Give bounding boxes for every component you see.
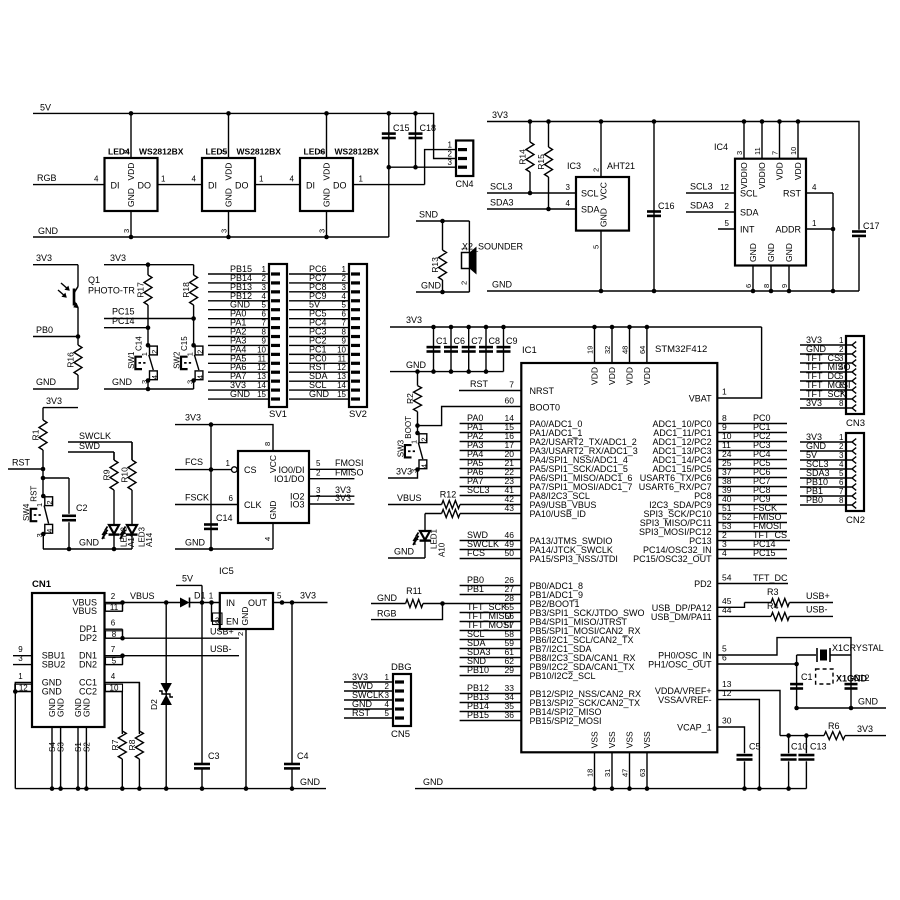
svg-text:12: 12: [720, 183, 729, 192]
svg-text:PB2/BOOT1: PB2/BOOT1: [530, 599, 580, 609]
svg-text:1: 1: [140, 352, 149, 356]
svg-text:PB0: PB0: [36, 325, 53, 335]
svg-text:3V3: 3V3: [300, 591, 316, 601]
svg-text:3V3: 3V3: [857, 724, 873, 734]
svg-text:DBG: DBG: [391, 662, 412, 673]
svg-text:IO3: IO3: [290, 500, 305, 510]
svg-text:C7: C7: [471, 336, 483, 346]
svg-text:GND: GND: [42, 687, 63, 697]
svg-text:4: 4: [385, 700, 390, 709]
svg-text:RST: RST: [470, 379, 489, 389]
svg-text:6: 6: [111, 619, 116, 628]
svg-text:CN4: CN4: [456, 179, 474, 189]
svg-text:R11: R11: [406, 586, 422, 596]
svg-text:C13: C13: [810, 742, 827, 752]
svg-text:C3: C3: [208, 751, 220, 761]
svg-text:PC15: PC15: [112, 307, 135, 317]
svg-text:2: 2: [592, 168, 601, 172]
svg-text:WS2812BX: WS2812BX: [139, 147, 184, 157]
svg-text:12: 12: [337, 363, 346, 372]
svg-text:SCL: SCL: [581, 189, 599, 199]
svg-text:R15: R15: [536, 154, 546, 170]
svg-text:4: 4: [419, 464, 428, 468]
svg-text:1: 1: [185, 352, 194, 356]
svg-text:VDD: VDD: [793, 162, 803, 180]
svg-text:C10: C10: [791, 742, 808, 752]
svg-text:6: 6: [722, 653, 727, 663]
svg-text:3V3: 3V3: [492, 110, 508, 120]
svg-text:1: 1: [259, 175, 264, 184]
svg-text:64: 64: [638, 346, 647, 354]
svg-text:11: 11: [258, 354, 267, 363]
svg-text:VSSA/VREF-: VSSA/VREF-: [658, 695, 712, 705]
svg-text:DO: DO: [138, 181, 152, 191]
svg-text:1: 1: [262, 265, 267, 274]
svg-text:4: 4: [45, 529, 54, 533]
svg-text:SV2: SV2: [349, 409, 367, 420]
svg-text:5V: 5V: [182, 574, 193, 584]
svg-text:PC14: PC14: [112, 316, 135, 326]
svg-text:6: 6: [342, 310, 347, 319]
svg-text:PA15/SPI3_NSS/JTDI: PA15/SPI3_NSS/JTDI: [530, 554, 618, 564]
svg-text:VDDIO: VDDIO: [739, 162, 749, 189]
svg-text:1: 1: [226, 459, 231, 468]
svg-text:S3: S3: [57, 742, 66, 752]
svg-text:R1: R1: [31, 429, 41, 440]
svg-text:1: 1: [459, 247, 468, 251]
svg-text:8: 8: [839, 399, 844, 408]
svg-text:C1: C1: [436, 336, 448, 346]
svg-text:CN1: CN1: [32, 579, 52, 590]
svg-text:VSS: VSS: [607, 731, 617, 748]
svg-text:VDD: VDD: [126, 163, 136, 181]
svg-text:7: 7: [262, 319, 267, 328]
svg-text:2: 2: [45, 500, 54, 504]
svg-text:IC4: IC4: [714, 142, 728, 152]
svg-text:GND: GND: [599, 208, 609, 227]
svg-text:6: 6: [744, 284, 753, 288]
svg-text:4: 4: [290, 175, 295, 184]
svg-text:3V3: 3V3: [396, 467, 412, 477]
svg-text:3V3: 3V3: [335, 493, 351, 503]
svg-text:SW3: SW3: [396, 439, 405, 457]
svg-text:INT: INT: [740, 225, 755, 235]
svg-text:VBAT: VBAT: [689, 394, 712, 404]
svg-text:4: 4: [812, 183, 817, 192]
svg-text:CLK: CLK: [244, 500, 262, 510]
svg-text:14: 14: [337, 381, 346, 390]
svg-text:7: 7: [839, 487, 844, 496]
svg-text:1: 1: [35, 503, 44, 507]
svg-text:4: 4: [262, 292, 267, 301]
svg-text:43: 43: [505, 503, 515, 513]
svg-text:GND: GND: [240, 607, 250, 626]
svg-text:2: 2: [459, 281, 468, 285]
svg-text:GND: GND: [126, 188, 136, 207]
svg-text:GND: GND: [79, 538, 100, 548]
svg-text:R13: R13: [430, 257, 440, 273]
svg-text:2: 2: [236, 632, 245, 636]
svg-text:5: 5: [342, 301, 347, 310]
svg-text:RST: RST: [783, 189, 802, 199]
svg-text:X2_SOUNDER: X2_SOUNDER: [462, 242, 524, 252]
svg-text:IC5: IC5: [219, 566, 234, 577]
svg-text:3: 3: [385, 691, 390, 700]
svg-text:SW4: SW4: [22, 503, 31, 521]
svg-text:GND: GND: [309, 389, 330, 399]
svg-text:VDDIO: VDDIO: [757, 162, 767, 189]
svg-text:13: 13: [337, 372, 346, 381]
svg-text:S2: S2: [82, 742, 91, 752]
svg-text:18: 18: [586, 769, 595, 777]
svg-text:CN5: CN5: [391, 729, 410, 740]
svg-text:VDD: VDD: [625, 367, 635, 385]
svg-text:ADDR: ADDR: [775, 225, 801, 235]
svg-text:2: 2: [839, 442, 844, 451]
svg-text:CN2: CN2: [846, 515, 865, 526]
svg-text:3V3: 3V3: [46, 396, 62, 406]
svg-text:PA10/USB_ID: PA10/USB_ID: [530, 509, 587, 519]
svg-text:5: 5: [385, 709, 390, 718]
svg-text:GND: GND: [81, 698, 91, 717]
svg-text:SWCLK: SWCLK: [79, 431, 111, 441]
svg-text:GND: GND: [300, 777, 321, 787]
svg-text:PB10: PB10: [467, 665, 489, 675]
svg-text:8: 8: [762, 284, 771, 288]
svg-text:1: 1: [18, 672, 23, 681]
svg-text:SWD: SWD: [79, 441, 100, 451]
svg-text:7: 7: [316, 494, 321, 503]
svg-text:19: 19: [586, 346, 595, 354]
svg-text:IO1/DO: IO1/DO: [274, 474, 305, 484]
svg-text:RST: RST: [12, 458, 31, 468]
svg-text:1: 1: [359, 175, 364, 184]
svg-text:SND: SND: [419, 210, 439, 220]
svg-text:WS2812BX: WS2812BX: [237, 147, 282, 157]
svg-text:VBUS: VBUS: [130, 591, 155, 601]
svg-text:FSCK: FSCK: [185, 493, 209, 503]
svg-text:PB0: PB0: [806, 495, 823, 505]
svg-text:31: 31: [603, 769, 612, 777]
svg-text:8: 8: [342, 328, 347, 337]
svg-text:2: 2: [196, 350, 205, 354]
svg-text:NRST: NRST: [530, 386, 555, 396]
svg-text:C8: C8: [489, 336, 501, 346]
svg-text:12: 12: [722, 688, 732, 698]
svg-text:GND: GND: [406, 360, 427, 370]
svg-text:SDA: SDA: [740, 208, 759, 218]
svg-text:GND: GND: [112, 377, 133, 387]
svg-text:R8: R8: [127, 739, 137, 750]
svg-text:SDA3: SDA3: [490, 198, 514, 208]
svg-text:VDD: VDD: [775, 162, 785, 180]
svg-text:5V: 5V: [40, 103, 51, 113]
svg-text:10: 10: [337, 345, 346, 354]
svg-text:4: 4: [342, 292, 347, 301]
svg-text:5: 5: [316, 459, 321, 468]
svg-text:C1: C1: [801, 672, 813, 682]
svg-text:SCL3: SCL3: [467, 485, 490, 495]
svg-text:A10: A10: [438, 542, 447, 557]
svg-text:9: 9: [780, 284, 789, 288]
svg-text:RGB: RGB: [377, 609, 397, 619]
svg-text:VSS: VSS: [642, 731, 652, 748]
svg-text:GND: GND: [377, 593, 398, 603]
svg-text:C18: C18: [420, 123, 437, 133]
svg-text:GND: GND: [423, 777, 444, 787]
svg-text:RST: RST: [30, 486, 39, 502]
svg-text:4: 4: [263, 537, 272, 541]
svg-text:R14: R14: [518, 149, 528, 165]
svg-text:3: 3: [342, 283, 347, 292]
svg-text:15: 15: [257, 390, 266, 399]
svg-text:GND: GND: [748, 243, 758, 262]
svg-text:5: 5: [262, 301, 267, 310]
svg-text:5: 5: [839, 469, 844, 478]
svg-text:1: 1: [448, 141, 453, 150]
svg-text:GND: GND: [268, 501, 278, 520]
svg-text:GND: GND: [56, 698, 66, 717]
svg-text:USB-: USB-: [806, 605, 828, 615]
svg-text:4: 4: [94, 175, 99, 184]
svg-text:DO: DO: [333, 181, 347, 191]
svg-text:PC15: PC15: [753, 548, 776, 558]
svg-text:VDD: VDD: [322, 163, 332, 181]
svg-text:FCS: FCS: [185, 457, 203, 467]
svg-text:2: 2: [150, 350, 159, 354]
svg-text:TFT_DC: TFT_DC: [753, 573, 788, 583]
svg-text:VBUS: VBUS: [397, 493, 422, 503]
svg-text:GND: GND: [784, 243, 794, 262]
svg-text:2: 2: [220, 150, 229, 154]
svg-text:32: 32: [603, 346, 612, 354]
svg-text:DP2: DP2: [79, 633, 97, 643]
svg-text:6: 6: [262, 310, 267, 319]
svg-text:X1GND: X1GND: [836, 674, 868, 684]
svg-text:D2: D2: [149, 699, 159, 710]
svg-text:4: 4: [722, 548, 727, 558]
svg-text:6: 6: [229, 494, 234, 503]
svg-text:15: 15: [337, 390, 346, 399]
svg-text:3: 3: [318, 229, 327, 233]
svg-text:3: 3: [220, 229, 229, 233]
svg-text:EN: EN: [226, 617, 239, 627]
svg-text:IC3: IC3: [567, 161, 581, 171]
svg-text:GND: GND: [766, 243, 776, 262]
svg-text:7: 7: [839, 390, 844, 399]
svg-text:DI: DI: [306, 181, 315, 191]
svg-text:36: 36: [505, 710, 515, 720]
svg-text:VCC: VCC: [268, 455, 278, 473]
svg-text:VSS: VSS: [590, 731, 600, 748]
svg-text:R3: R3: [767, 587, 779, 597]
svg-text:Q1: Q1: [88, 275, 100, 285]
svg-text:PD2: PD2: [694, 579, 712, 589]
svg-text:C4: C4: [297, 751, 309, 761]
svg-text:SW2: SW2: [172, 351, 181, 369]
svg-text:3V3: 3V3: [110, 253, 126, 263]
svg-text:3: 3: [262, 283, 267, 292]
svg-text:5: 5: [277, 592, 282, 601]
svg-text:3V3: 3V3: [36, 253, 52, 263]
svg-text:USB-: USB-: [210, 644, 232, 654]
svg-text:CN3: CN3: [846, 418, 865, 429]
svg-text:1: 1: [409, 440, 418, 444]
svg-text:R18: R18: [181, 282, 191, 298]
svg-text:60: 60: [505, 396, 515, 406]
svg-text:30: 30: [722, 716, 732, 726]
svg-text:R16: R16: [66, 352, 76, 368]
svg-text:10: 10: [110, 684, 119, 693]
svg-text:1: 1: [342, 265, 347, 274]
svg-text:1: 1: [209, 592, 214, 601]
svg-text:10: 10: [789, 147, 798, 155]
svg-text:GND: GND: [224, 188, 234, 207]
svg-text:2: 2: [725, 202, 730, 211]
svg-text:A14: A14: [145, 532, 154, 547]
svg-text:9: 9: [262, 336, 267, 345]
svg-text:VDD: VDD: [642, 367, 652, 385]
svg-text:1: 1: [722, 387, 727, 397]
svg-text:GND: GND: [421, 281, 442, 291]
svg-text:3: 3: [122, 229, 131, 233]
svg-text:4: 4: [196, 375, 205, 379]
svg-text:IN: IN: [226, 598, 235, 608]
svg-text:PH1/OSC_OUT: PH1/OSC_OUT: [648, 660, 712, 670]
svg-text:6: 6: [839, 478, 844, 487]
svg-text:4: 4: [566, 199, 571, 208]
svg-text:2: 2: [122, 150, 131, 154]
svg-text:USB+: USB+: [210, 627, 234, 637]
svg-text:X1CRYSTAL: X1CRYSTAL: [832, 643, 884, 653]
svg-text:DO: DO: [235, 181, 249, 191]
svg-text:SCL3: SCL3: [490, 182, 513, 192]
svg-text:C6: C6: [454, 336, 466, 346]
svg-text:8: 8: [262, 328, 267, 337]
svg-text:C14: C14: [134, 336, 143, 351]
svg-text:4: 4: [111, 672, 116, 681]
svg-text:3: 3: [566, 183, 571, 192]
svg-text:12: 12: [257, 363, 266, 372]
svg-text:3: 3: [735, 151, 744, 155]
svg-text:2: 2: [448, 150, 453, 159]
svg-text:PB1: PB1: [467, 584, 484, 594]
svg-text:5: 5: [725, 219, 730, 228]
svg-text:9: 9: [18, 645, 23, 654]
svg-text:SDA3: SDA3: [690, 201, 714, 211]
svg-text:IC1: IC1: [522, 345, 537, 356]
svg-text:D1: D1: [194, 591, 206, 601]
svg-text:3V3: 3V3: [185, 413, 201, 423]
svg-text:DN2: DN2: [79, 660, 97, 670]
svg-text:R10: R10: [120, 467, 130, 483]
svg-text:USB+: USB+: [806, 591, 830, 601]
svg-text:WS2812BX: WS2812BX: [335, 147, 380, 157]
svg-text:R6: R6: [828, 721, 840, 731]
svg-text:5: 5: [592, 245, 601, 249]
svg-text:4: 4: [150, 375, 159, 379]
svg-text:GND: GND: [230, 389, 251, 399]
svg-text:R4: R4: [767, 601, 779, 611]
svg-text:SW1: SW1: [127, 351, 136, 369]
svg-text:SBU2: SBU2: [42, 660, 66, 670]
svg-text:SCL3: SCL3: [690, 182, 713, 192]
svg-text:2: 2: [316, 469, 321, 478]
svg-text:R9: R9: [102, 469, 112, 480]
svg-text:VDD: VDD: [590, 367, 600, 385]
svg-text:7: 7: [771, 151, 780, 155]
svg-text:1: 1: [161, 175, 166, 184]
svg-text:2: 2: [111, 592, 116, 601]
svg-text:VDD: VDD: [224, 163, 234, 181]
svg-text:BOOT0: BOOT0: [530, 403, 561, 413]
svg-text:C5: C5: [749, 742, 761, 752]
svg-text:2: 2: [262, 274, 267, 283]
svg-text:14: 14: [257, 381, 266, 390]
svg-text:SCL: SCL: [740, 189, 758, 199]
svg-text:50: 50: [505, 548, 515, 558]
svg-text:4: 4: [192, 175, 197, 184]
svg-text:DI: DI: [208, 181, 217, 191]
svg-text:PB10/I2C2_SCL: PB10/I2C2_SCL: [530, 671, 596, 681]
svg-text:12: 12: [19, 684, 28, 693]
svg-text:8: 8: [839, 496, 844, 505]
svg-text:48: 48: [621, 346, 630, 354]
svg-text:GND: GND: [38, 226, 59, 236]
svg-text:C14: C14: [216, 513, 233, 523]
svg-text:8: 8: [263, 442, 272, 446]
svg-text:9: 9: [342, 336, 347, 345]
svg-text:C2: C2: [76, 503, 88, 513]
svg-text:3V3: 3V3: [406, 315, 422, 325]
svg-text:10: 10: [257, 345, 266, 354]
svg-text:C15: C15: [393, 123, 410, 133]
svg-text:C15: C15: [180, 336, 189, 351]
svg-text:FCS: FCS: [467, 548, 485, 558]
svg-text:CS: CS: [244, 465, 257, 475]
svg-text:C9: C9: [506, 336, 518, 346]
svg-text:1: 1: [385, 673, 390, 682]
svg-text:R7: R7: [110, 739, 120, 750]
svg-text:1: 1: [839, 433, 844, 442]
svg-text:AHT21: AHT21: [607, 161, 635, 171]
svg-text:USB_DM/PA11: USB_DM/PA11: [651, 612, 712, 622]
svg-text:GND: GND: [858, 697, 879, 707]
svg-text:2: 2: [419, 437, 428, 441]
svg-text:11: 11: [338, 354, 347, 363]
svg-text:FMISO: FMISO: [335, 468, 364, 478]
svg-text:C17: C17: [863, 221, 880, 231]
svg-text:GND: GND: [492, 280, 513, 290]
svg-text:BOOT: BOOT: [404, 416, 413, 439]
svg-text:11: 11: [110, 603, 119, 612]
svg-text:3: 3: [839, 451, 844, 460]
svg-text:1: 1: [839, 336, 844, 345]
svg-text:C16: C16: [658, 201, 675, 211]
svg-text:VDD: VDD: [607, 367, 617, 385]
svg-text:R12: R12: [440, 490, 457, 500]
svg-text:29: 29: [505, 665, 515, 675]
svg-text:VBUS: VBUS: [72, 606, 97, 616]
svg-text:GND: GND: [322, 188, 332, 207]
svg-text:1: 1: [812, 219, 817, 228]
svg-text:CC2: CC2: [79, 687, 97, 697]
svg-text:3V3: 3V3: [806, 398, 822, 408]
svg-text:R2: R2: [405, 393, 415, 404]
svg-text:RST: RST: [352, 708, 371, 718]
svg-text:DI: DI: [111, 181, 120, 191]
svg-text:GND: GND: [36, 377, 57, 387]
